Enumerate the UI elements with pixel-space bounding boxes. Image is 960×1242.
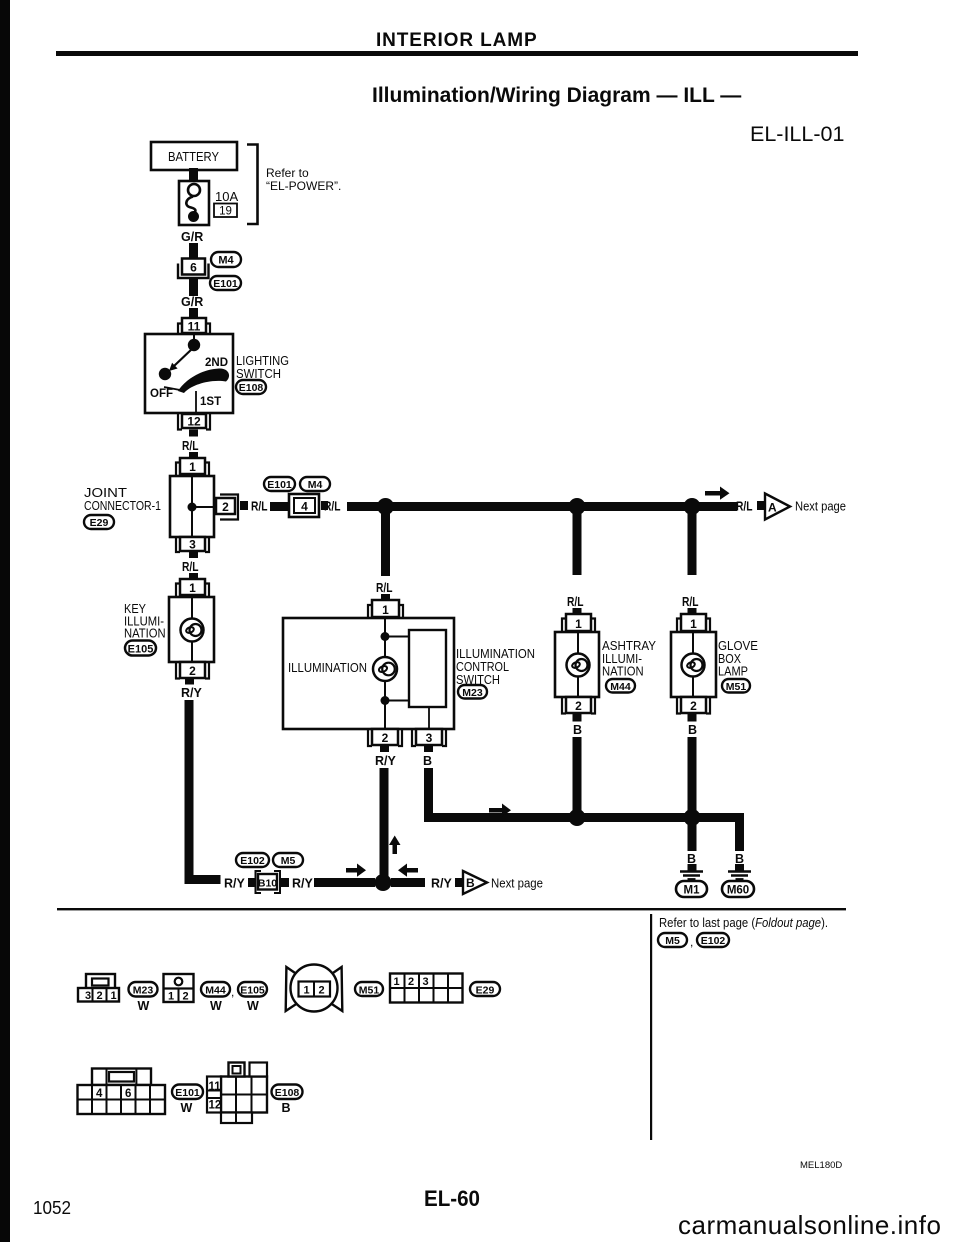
- svg-text:CONTROL: CONTROL: [456, 660, 509, 674]
- connector id E102 (above B10): [236, 853, 269, 867]
- svg-text:M51: M51: [359, 985, 380, 997]
- wire elbow to R/Y run: [185, 875, 221, 884]
- ashtray illumination pin 1: [562, 614, 595, 632]
- svg-text:M60: M60: [727, 885, 749, 897]
- svg-text:Refer to: Refer to: [266, 166, 309, 180]
- svg-text:M23: M23: [133, 985, 154, 997]
- svg-text:R/L: R/L: [736, 500, 753, 514]
- connector id E29: [84, 515, 114, 529]
- connector id M4 (top): [300, 477, 330, 491]
- svg-text:R/L: R/L: [251, 500, 268, 514]
- svg-text:19: 19: [219, 206, 232, 218]
- key illumination pin 1: [176, 579, 209, 597]
- arrow right on bus: [705, 487, 730, 500]
- illumination control switch pin 2: [368, 729, 402, 746]
- wire M23 pin3 down to ground bus: [424, 768, 433, 822]
- wire nub after B10: [281, 878, 289, 887]
- off-page connector B: [463, 871, 487, 894]
- joint connector-1 E29: [170, 476, 214, 537]
- footer separator rule: [57, 908, 846, 910]
- ashtray branch wire from bus: [573, 511, 582, 575]
- connector id E101 (row): [172, 1085, 203, 1116]
- wire nub after pin 4: [321, 501, 328, 510]
- svg-text:OFF: OFF: [150, 388, 173, 400]
- key illumination E105: [169, 597, 214, 662]
- svg-text:B: B: [282, 1101, 291, 1115]
- arrow right toward junction: [346, 864, 366, 877]
- fuse number 19: [214, 204, 237, 218]
- svg-text:2: 2: [690, 699, 697, 713]
- wire pin12 to R/L: [189, 430, 198, 437]
- illumination control switch pin 3: [412, 729, 446, 746]
- connector id M51 (row): [355, 982, 383, 997]
- wire key illumination down to B10 run: [185, 700, 194, 875]
- svg-text:M4: M4: [218, 255, 234, 267]
- junction node at ashtray branch: [569, 498, 586, 515]
- wire B10 to junction: [314, 878, 375, 887]
- wire nub before B triangle: [455, 878, 462, 887]
- svg-text:4: 4: [96, 1088, 103, 1100]
- svg-text:6: 6: [190, 261, 197, 275]
- ground id M1: [676, 881, 707, 897]
- glove box lamp pin 1: [677, 614, 710, 632]
- svg-text:LIGHTING: LIGHTING: [236, 354, 289, 368]
- wire to pin 11: [189, 308, 198, 319]
- svg-text:1: 1: [304, 985, 310, 997]
- ashtray illumination pin 2: [562, 697, 595, 714]
- connector B10 (E102/M5): [256, 871, 281, 893]
- svg-text:,: ,: [690, 935, 693, 949]
- ashtray illumination M44: [555, 632, 599, 697]
- connector id E101 (top): [264, 477, 295, 491]
- connector id E108: [236, 380, 266, 394]
- svg-text:11: 11: [188, 320, 201, 334]
- wire to joint connector pin 1: [189, 452, 198, 458]
- ground symbol M60: [728, 872, 751, 880]
- connector id M5 (above B10): [273, 853, 303, 867]
- glove box lamp pin 2: [677, 697, 710, 714]
- junction node R/Y: [375, 874, 392, 891]
- svg-text:12: 12: [187, 415, 201, 429]
- svg-text:4: 4: [301, 500, 308, 514]
- connector id E102 (note): [697, 933, 729, 947]
- svg-text:2ND: 2ND: [205, 357, 228, 369]
- wire M23 pin2 down: [380, 768, 389, 878]
- svg-text:B: B: [466, 876, 475, 890]
- svg-text:2: 2: [183, 991, 189, 1003]
- wire stub to ground M1: [688, 864, 697, 871]
- connector id E105: [125, 641, 156, 656]
- key illumination pin 2: [176, 662, 209, 679]
- svg-text:M5: M5: [665, 935, 680, 947]
- svg-text:1: 1: [575, 617, 582, 631]
- wire nub before A triangle: [757, 501, 764, 510]
- svg-text:1: 1: [382, 603, 389, 617]
- wire stub to glove pin1: [688, 608, 697, 614]
- lighting switch pin 12: [178, 414, 210, 430]
- svg-text:Next page: Next page: [795, 500, 846, 514]
- svg-text:2: 2: [97, 990, 103, 1002]
- svg-text:6: 6: [125, 1088, 131, 1100]
- arrow left toward junction: [398, 864, 418, 877]
- connector pin 6 (M4/E101): [178, 259, 209, 279]
- svg-text:12: 12: [209, 1100, 222, 1112]
- lighting switch pin 11: [178, 318, 210, 334]
- connector id M4: [211, 252, 241, 267]
- wire glove to ground bus: [688, 737, 697, 813]
- svg-text:M4: M4: [308, 479, 323, 491]
- svg-text:Next page: Next page: [491, 877, 543, 891]
- wire stub below M23 pin 2: [380, 746, 389, 752]
- svg-text:G/R: G/R: [181, 295, 203, 309]
- battery B1: [151, 142, 237, 170]
- svg-text:,: ,: [231, 985, 234, 999]
- svg-text:B: B: [423, 754, 432, 768]
- wire nub pin2: [240, 501, 248, 510]
- junction node at glove branch: [684, 498, 701, 515]
- svg-text:E101: E101: [213, 278, 238, 290]
- wire nub before B10: [248, 878, 256, 887]
- svg-text:R/L: R/L: [567, 595, 584, 609]
- connector id M23 (row): [129, 982, 158, 1013]
- connector id E101: [210, 276, 241, 290]
- svg-text:MEL180D: MEL180D: [800, 1160, 842, 1171]
- svg-text:R/Y: R/Y: [431, 877, 453, 891]
- connector face M51 (bowtie): [286, 965, 343, 1012]
- svg-text:M51: M51: [726, 681, 747, 693]
- off-page connector A: [765, 494, 790, 520]
- svg-text:3: 3: [189, 538, 196, 552]
- svg-text:R/Y: R/Y: [375, 754, 397, 768]
- connector id M51: [722, 679, 750, 693]
- svg-text:“EL-POWER”.: “EL-POWER”.: [266, 179, 341, 193]
- junction node at M23 branch: [377, 498, 394, 515]
- svg-text:M44: M44: [610, 681, 631, 693]
- connector id E105 (row): [238, 982, 267, 1013]
- svg-text:E102: E102: [240, 855, 265, 867]
- svg-text:11: 11: [209, 1081, 222, 1093]
- svg-text:3: 3: [426, 731, 433, 745]
- wire junction to right: [391, 878, 425, 887]
- svg-text:2: 2: [382, 731, 389, 745]
- svg-text:R/L: R/L: [682, 595, 699, 609]
- connector face E101: [78, 1069, 166, 1115]
- svg-text:R/L: R/L: [182, 439, 199, 453]
- svg-text:E105: E105: [128, 644, 154, 656]
- svg-text:2: 2: [575, 699, 582, 713]
- connector id E108 (row): [272, 1085, 303, 1116]
- svg-text:INTERIOR LAMP: INTERIOR LAMP: [376, 30, 538, 51]
- svg-text:Illumination/Wiring Diagram —: Illumination/Wiring Diagram — ILL —: [372, 84, 741, 107]
- svg-text:E108: E108: [275, 1087, 300, 1099]
- svg-text:B: B: [688, 723, 697, 737]
- svg-text:1: 1: [168, 991, 174, 1003]
- wire battery to fuse: [189, 168, 198, 182]
- svg-text:M5: M5: [281, 855, 296, 867]
- svg-text:E105: E105: [240, 985, 265, 997]
- joint connector pin 1: [176, 458, 209, 476]
- ground symbol M1: [680, 872, 703, 880]
- svg-text:3: 3: [423, 976, 429, 988]
- illumination control switch pin 1: [368, 600, 403, 618]
- svg-text:E102: E102: [701, 935, 726, 947]
- wire stub to ground M60: [735, 864, 744, 871]
- svg-text:R/L: R/L: [182, 560, 199, 574]
- svg-text:B: B: [687, 852, 696, 866]
- svg-text:A: A: [768, 501, 777, 515]
- svg-text:E101: E101: [267, 479, 292, 491]
- svg-text:E101: E101: [175, 1087, 200, 1099]
- svg-text:EL-60: EL-60: [424, 1186, 480, 1211]
- illumination control switch M23: [283, 618, 454, 729]
- glove box lamp M51: [671, 632, 716, 697]
- joint connector pin 3: [176, 537, 209, 552]
- svg-text:B: B: [573, 723, 582, 737]
- glove branch wire from bus: [688, 511, 697, 575]
- svg-text:NATION: NATION: [124, 627, 166, 641]
- wire elbow down to M60: [735, 813, 744, 851]
- connector id M44 (row): [201, 982, 234, 1013]
- wire stub to ashtray pin1: [573, 608, 582, 614]
- footer vertical divider: [650, 914, 652, 1140]
- joint connector pin 2 (right): [216, 495, 238, 520]
- svg-text:M1: M1: [684, 885, 701, 897]
- ground bus horizontal: [424, 813, 744, 822]
- svg-text:10A: 10A: [215, 189, 238, 204]
- bracket refer to EL-POWER: [247, 145, 258, 225]
- svg-text:ASHTRAY: ASHTRAY: [602, 639, 657, 653]
- svg-text:W: W: [181, 1101, 193, 1115]
- connector face E108: [207, 1063, 267, 1124]
- svg-text:BATTERY: BATTERY: [168, 149, 219, 164]
- svg-text:E29: E29: [90, 517, 109, 529]
- wire pin3 to key illumination: [189, 552, 198, 558]
- svg-text:ILLUMINATION: ILLUMINATION: [456, 647, 535, 661]
- wire stub below glove pin 2: [688, 714, 697, 722]
- svg-text:2: 2: [222, 500, 229, 514]
- arrow up beside M23 pin2 wire: [389, 836, 401, 855]
- svg-text:1: 1: [111, 990, 117, 1002]
- connector face M44: [164, 974, 194, 1003]
- junction node glove ground: [684, 809, 701, 826]
- svg-text:2: 2: [408, 976, 414, 988]
- svg-text:R/Y: R/Y: [224, 877, 246, 891]
- wire stub below ashtray pin 2: [573, 714, 582, 722]
- connector id E29 (row): [470, 982, 500, 997]
- wire connector 6 to lighting switch: [189, 278, 198, 296]
- svg-text:B: B: [735, 852, 744, 866]
- wire fuse to connector 6: [189, 243, 198, 260]
- svg-text:M23: M23: [462, 687, 483, 699]
- svg-text:1ST: 1ST: [200, 396, 221, 408]
- connector face E29: [390, 974, 463, 1003]
- wire bus to M23 pin1: [381, 511, 390, 576]
- svg-text:R/Y: R/Y: [292, 877, 314, 891]
- svg-text:G/R: G/R: [181, 230, 203, 244]
- svg-text:E108: E108: [239, 382, 264, 394]
- ground id M60: [722, 881, 754, 897]
- svg-text:NATION: NATION: [602, 665, 644, 679]
- svg-text:CONNECTOR-1: CONNECTOR-1: [84, 499, 161, 513]
- wire stub below M23 pin 3: [424, 746, 433, 752]
- svg-text:carmanualsonline.info: carmanualsonline.info: [678, 1210, 941, 1240]
- svg-text:B10: B10: [258, 878, 277, 890]
- svg-text:GLOVE: GLOVE: [718, 639, 758, 653]
- svg-text:LAMP: LAMP: [718, 665, 748, 679]
- fuse 10A: [179, 181, 209, 225]
- svg-text:R/Y: R/Y: [181, 686, 203, 700]
- svg-text:EL-ILL-01: EL-ILL-01: [750, 122, 844, 146]
- svg-text:R/L: R/L: [324, 500, 341, 514]
- connector id M44: [606, 679, 635, 693]
- svg-text:1052: 1052: [33, 1197, 71, 1218]
- connector face M23: [78, 974, 119, 1002]
- svg-text:3: 3: [85, 990, 91, 1002]
- svg-text:1: 1: [690, 617, 697, 631]
- wire pin2 to connector 4: [270, 502, 289, 511]
- svg-text:E29: E29: [476, 985, 495, 997]
- title rule: [56, 51, 858, 56]
- svg-text:W: W: [138, 999, 150, 1013]
- lighting switch E108: [145, 334, 233, 413]
- svg-text:1: 1: [189, 460, 196, 474]
- scan edge black strip: [0, 0, 10, 1242]
- svg-text:W: W: [247, 999, 259, 1013]
- wire ashtray to ground bus: [573, 737, 582, 813]
- svg-text:1: 1: [189, 581, 196, 595]
- wire glove junction to ground M1: [688, 822, 697, 851]
- wire stub to M23 pin1: [381, 594, 390, 600]
- svg-text:M44: M44: [205, 985, 226, 997]
- svg-text:2: 2: [319, 985, 325, 997]
- svg-text:R/L: R/L: [376, 581, 393, 595]
- connector pin 4 (E101/M4): [289, 494, 319, 517]
- arrow right on ground bus: [489, 804, 511, 817]
- svg-text:1: 1: [394, 976, 400, 988]
- connector id M5 (note): [658, 933, 687, 947]
- svg-text:ILLUMINATION: ILLUMINATION: [288, 661, 367, 675]
- main R/L bus wire: [347, 502, 737, 511]
- wire stub below key pin 2: [185, 679, 194, 685]
- svg-text:2: 2: [189, 664, 196, 678]
- svg-text:W: W: [210, 999, 222, 1013]
- connector id M23: [458, 685, 487, 699]
- svg-text:Refer to last page (Foldout pa: Refer to last page (Foldout page).: [659, 916, 828, 930]
- junction node ashtray ground: [569, 809, 586, 826]
- svg-text:JOINT: JOINT: [84, 486, 127, 500]
